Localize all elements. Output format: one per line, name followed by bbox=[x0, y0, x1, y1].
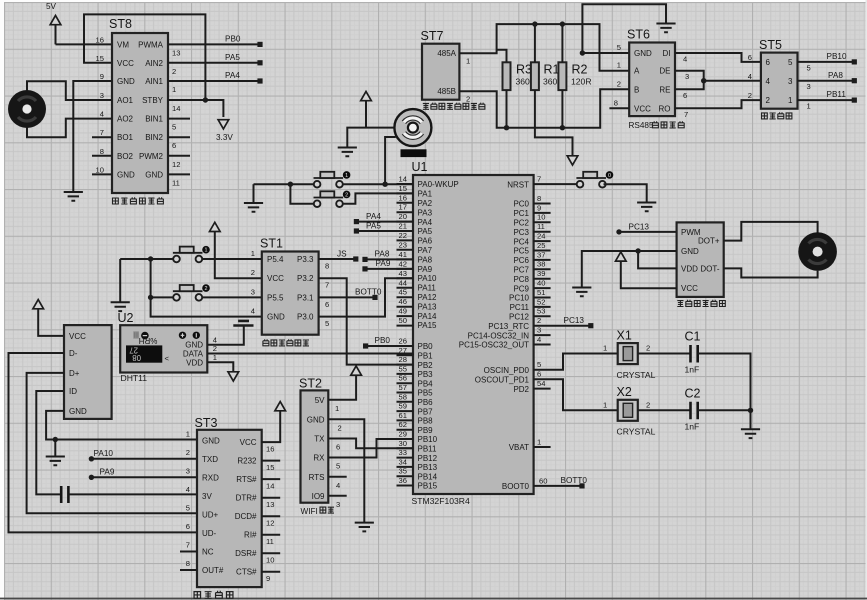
node PA9 bbox=[89, 475, 94, 480]
svg-text:2: 2 bbox=[646, 400, 650, 409]
svg-text:PA8: PA8 bbox=[418, 255, 433, 264]
svg-text:485A: 485A bbox=[437, 49, 456, 58]
svg-text:RTS: RTS bbox=[309, 473, 325, 482]
svg-text:VCC: VCC bbox=[240, 438, 257, 447]
svg-text:5: 5 bbox=[788, 58, 793, 67]
wire ST5 pin1 to PB11 label bbox=[798, 99, 855, 101]
wire VM to 5V bbox=[56, 43, 113, 45]
svg-text:IO9: IO9 bbox=[312, 492, 325, 501]
svg-text:PA5: PA5 bbox=[418, 227, 433, 236]
svg-text:2: 2 bbox=[345, 192, 348, 198]
svg-text:PB11: PB11 bbox=[418, 445, 438, 454]
svg-text:JS: JS bbox=[337, 249, 347, 258]
svg-text:62: 62 bbox=[399, 420, 407, 429]
svg-text:PA1: PA1 bbox=[418, 190, 433, 199]
ST5 left pin numbers bbox=[748, 53, 752, 100]
wire cap to ST3 3V bbox=[68, 493, 197, 495]
svg-text:WIFI: WIFI bbox=[301, 507, 318, 516]
wire pump VCC bbox=[621, 261, 677, 288]
svg-text:9: 9 bbox=[266, 574, 270, 583]
svg-text:U2: U2 bbox=[118, 311, 134, 325]
wire R3 top lead bbox=[497, 50, 507, 63]
svg-text:8: 8 bbox=[537, 194, 541, 203]
svg-text:PA9: PA9 bbox=[418, 265, 433, 274]
svg-text:30: 30 bbox=[399, 439, 407, 448]
svg-text:VCC: VCC bbox=[69, 332, 86, 341]
svg-text:12: 12 bbox=[266, 519, 274, 528]
svg-text:PA14: PA14 bbox=[418, 312, 438, 321]
svg-text:PC7: PC7 bbox=[513, 266, 529, 275]
svg-text:U1: U1 bbox=[412, 160, 428, 174]
svg-text:DHT11: DHT11 bbox=[121, 373, 148, 383]
svg-text:8: 8 bbox=[186, 559, 190, 568]
svg-text:PB13: PB13 bbox=[418, 463, 438, 472]
svg-text:44: 44 bbox=[399, 278, 407, 287]
svg-text:P3.1: P3.1 bbox=[297, 293, 314, 302]
svg-text:3: 3 bbox=[537, 326, 541, 335]
svg-text:DCD#: DCD# bbox=[235, 512, 257, 521]
svg-text:43: 43 bbox=[399, 269, 407, 278]
ground under ST2 bbox=[355, 523, 374, 532]
svg-text:37: 37 bbox=[537, 250, 545, 259]
svg-text:56: 56 bbox=[399, 374, 407, 383]
wire NRST to reset button bbox=[534, 183, 580, 185]
svg-text:7: 7 bbox=[684, 110, 688, 119]
capacitor C2 bbox=[685, 386, 701, 431]
junction GND wire bbox=[580, 50, 585, 55]
svg-text:28: 28 bbox=[399, 355, 407, 364]
U2 pin numbers bbox=[213, 335, 217, 362]
svg-text:PB11: PB11 bbox=[827, 90, 847, 99]
svg-text:3: 3 bbox=[807, 82, 811, 91]
dht display bbox=[126, 345, 162, 362]
svg-text:PC12: PC12 bbox=[509, 313, 530, 322]
svg-text:1: 1 bbox=[617, 61, 621, 70]
wire PB0 label to U1 bbox=[366, 345, 413, 347]
svg-text:4: 4 bbox=[100, 110, 104, 119]
svg-text:6: 6 bbox=[683, 91, 687, 100]
svg-text:49: 49 bbox=[399, 307, 407, 316]
svg-text:1: 1 bbox=[251, 249, 255, 258]
ST3 NC OUT# stubs bbox=[180, 552, 197, 571]
wire ST5 pin5 to PB10 label bbox=[798, 61, 855, 63]
svg-text:PC2: PC2 bbox=[513, 219, 529, 228]
svg-text:PC8: PC8 bbox=[513, 275, 529, 284]
dht knob icon bbox=[141, 332, 149, 340]
svg-text:5: 5 bbox=[807, 63, 811, 72]
svg-text:PWM: PWM bbox=[681, 228, 701, 237]
svg-text:PA9: PA9 bbox=[376, 259, 391, 268]
wire PA8 label to U1 bbox=[365, 258, 413, 260]
ST3 right stubs bbox=[262, 461, 281, 572]
svg-text:RTS#: RTS# bbox=[236, 475, 257, 484]
crystal X2 bbox=[617, 385, 656, 437]
wire USB ID to cap to ST3 3V bbox=[36, 391, 64, 494]
svg-text:6: 6 bbox=[537, 370, 541, 379]
U1 left pin names PB bbox=[418, 342, 438, 491]
ST8 stub wires pins BIN1 BIN2 PWM2 GND11 bbox=[168, 119, 190, 175]
svg-text:VCC: VCC bbox=[634, 104, 651, 113]
svg-text:PC10: PC10 bbox=[509, 294, 530, 303]
junction button B left bbox=[148, 295, 153, 300]
label 水泵驱动模块 bbox=[677, 300, 725, 307]
svg-text:6: 6 bbox=[766, 58, 771, 67]
wire R2 top lead bbox=[561, 24, 563, 62]
svg-text:4: 4 bbox=[537, 335, 541, 344]
ground right of reset button bbox=[637, 203, 656, 212]
svg-text:PB10: PB10 bbox=[418, 435, 438, 444]
svg-text:2: 2 bbox=[766, 96, 771, 105]
svg-text:40: 40 bbox=[537, 279, 545, 288]
page white margins bbox=[0, 0, 4, 600]
svg-text:15: 15 bbox=[399, 184, 407, 193]
wire reset button to ground bbox=[604, 184, 647, 202]
wire ST6 GND to top ground bbox=[582, 4, 666, 53]
svg-text:P3.0: P3.0 bbox=[297, 313, 314, 322]
wire P3.3 to JS label bbox=[319, 258, 356, 260]
ST8 left pin numbers bbox=[96, 35, 104, 174]
svg-text:PB1: PB1 bbox=[418, 352, 434, 361]
svg-text:2: 2 bbox=[646, 344, 650, 353]
svg-text:11: 11 bbox=[266, 537, 274, 546]
power arrow on pump VCC bbox=[616, 252, 627, 261]
svg-text:C1: C1 bbox=[685, 330, 701, 344]
svg-text:PC14-OSC32_IN: PC14-OSC32_IN bbox=[468, 331, 530, 340]
node BOTT0 bbox=[372, 295, 377, 300]
svg-text:14: 14 bbox=[172, 104, 180, 113]
svg-text:R1: R1 bbox=[544, 63, 560, 77]
svg-text:1: 1 bbox=[807, 102, 811, 111]
svg-text:BIN1: BIN1 bbox=[145, 115, 163, 124]
svg-text:DI: DI bbox=[663, 49, 671, 58]
svg-text:9: 9 bbox=[100, 72, 104, 81]
svg-text:52: 52 bbox=[537, 297, 545, 306]
svg-text:11: 11 bbox=[172, 178, 180, 187]
svg-text:9: 9 bbox=[537, 203, 541, 212]
svg-text:BO2: BO2 bbox=[117, 152, 134, 161]
svg-text:5V: 5V bbox=[46, 2, 57, 11]
svg-text:GND: GND bbox=[69, 407, 87, 416]
svg-text:PB0: PB0 bbox=[375, 336, 391, 345]
wire pump GND to ground bbox=[582, 251, 677, 288]
svg-text:4: 4 bbox=[213, 335, 217, 344]
power 3.3V arrow bbox=[216, 120, 233, 142]
svg-text:D+: D+ bbox=[69, 369, 80, 378]
svg-text:R232: R232 bbox=[237, 457, 257, 466]
svg-text:ST3: ST3 bbox=[195, 416, 218, 430]
svg-text:P5.5: P5.5 bbox=[267, 293, 284, 302]
svg-text:TX: TX bbox=[314, 435, 325, 444]
svg-text:3: 3 bbox=[788, 77, 793, 86]
svg-text:PC13_RTC: PC13_RTC bbox=[488, 322, 529, 331]
svg-text:5: 5 bbox=[537, 360, 541, 369]
svg-text:PA2: PA2 bbox=[418, 199, 433, 208]
U1 left pin names PA bbox=[418, 180, 459, 330]
svg-text:PA3: PA3 bbox=[418, 208, 433, 217]
svg-text:08: 08 bbox=[132, 353, 141, 362]
svg-text:P3.3: P3.3 bbox=[297, 255, 314, 264]
svg-text:GND: GND bbox=[145, 170, 163, 179]
svg-text:AIN2: AIN2 bbox=[145, 59, 163, 68]
dht pin names bbox=[183, 341, 204, 368]
svg-text:45: 45 bbox=[399, 288, 407, 297]
power arrow above sensor wire bbox=[361, 92, 372, 128]
svg-text:29: 29 bbox=[399, 430, 407, 439]
svg-text:51: 51 bbox=[537, 288, 545, 297]
svg-text:PWM2: PWM2 bbox=[139, 152, 164, 161]
svg-text:58: 58 bbox=[399, 392, 407, 401]
wire DOT+ to motor bbox=[724, 222, 818, 241]
wire ST5 pin3 to PA8 label bbox=[798, 80, 855, 82]
svg-text:5: 5 bbox=[172, 123, 176, 132]
wire DOT- to motor bbox=[724, 268, 818, 277]
svg-text:7: 7 bbox=[537, 175, 541, 184]
wire ST1 GND rail bbox=[120, 259, 262, 317]
svg-text:STM32F103R4: STM32F103R4 bbox=[412, 496, 470, 506]
node PA4 bbox=[354, 219, 359, 224]
junction button A left bbox=[148, 256, 153, 261]
U1 right pin names bbox=[459, 180, 530, 491]
ground under pump GND bbox=[572, 288, 591, 297]
svg-text:ST5: ST5 bbox=[759, 38, 782, 52]
svg-text:ID: ID bbox=[69, 387, 77, 396]
connector ST5 bbox=[759, 38, 798, 109]
svg-text:GND: GND bbox=[681, 247, 699, 256]
svg-text:61: 61 bbox=[399, 411, 407, 420]
wire ST2 RX to PB10 bbox=[328, 439, 413, 458]
svg-text:11: 11 bbox=[537, 222, 545, 231]
wire pump VDD bbox=[638, 251, 677, 268]
power arrow above ST2 5V bbox=[351, 366, 362, 375]
wire sensor left lead to ground bbox=[347, 128, 394, 148]
wire P3.1 to BOTT0 label bbox=[319, 296, 375, 298]
svg-text:3: 3 bbox=[685, 72, 689, 81]
svg-text:39: 39 bbox=[537, 269, 545, 278]
junction R2/A-net bbox=[560, 21, 565, 26]
svg-text:R3: R3 bbox=[516, 63, 532, 77]
svg-text:22: 22 bbox=[399, 231, 407, 240]
svg-text:1: 1 bbox=[345, 173, 348, 179]
ST8 stub wires BO1 BO2 GND10 bbox=[92, 137, 112, 174]
push button ST1-A bbox=[173, 246, 210, 262]
junction R3/bottom rail bbox=[504, 125, 509, 130]
svg-text:STBY: STBY bbox=[142, 96, 164, 105]
svg-text:PB15: PB15 bbox=[418, 482, 438, 491]
ground left of PA0 button bbox=[253, 184, 255, 203]
svg-text:PWMA: PWMA bbox=[138, 40, 164, 49]
svg-text:PC4: PC4 bbox=[513, 237, 529, 246]
svg-text:BOOT0: BOOT0 bbox=[502, 482, 530, 491]
power arrow above ST3 VCC bbox=[275, 402, 286, 411]
svg-text:B: B bbox=[634, 85, 639, 94]
svg-text:5: 5 bbox=[186, 503, 190, 512]
wire BOOT0 to BOTT0 label bbox=[534, 485, 582, 487]
svg-text:8: 8 bbox=[325, 262, 329, 271]
wire PA10 to ST3 TXD bbox=[91, 458, 197, 460]
junction rail/C2 bbox=[748, 408, 753, 413]
svg-text:41: 41 bbox=[399, 250, 407, 259]
svg-text:GND: GND bbox=[634, 49, 652, 58]
ST8 right pin numbers bbox=[172, 48, 180, 187]
svg-text:C2: C2 bbox=[685, 386, 701, 400]
junction DE/RE bbox=[701, 78, 706, 83]
svg-text:PC15-OSC32_OUT: PC15-OSC32_OUT bbox=[459, 341, 529, 350]
svg-text:GND: GND bbox=[117, 170, 135, 179]
svg-text:RX: RX bbox=[313, 454, 325, 463]
wire U2 GND to vbar bbox=[207, 326, 244, 345]
svg-text:7: 7 bbox=[186, 540, 190, 549]
svg-text:PB8: PB8 bbox=[418, 417, 434, 426]
wire motor bottom to AO2 bbox=[27, 119, 112, 138]
svg-text:4: 4 bbox=[748, 72, 752, 81]
svg-text:GND: GND bbox=[267, 313, 285, 322]
svg-text:PA10: PA10 bbox=[418, 274, 438, 283]
svg-text:RO: RO bbox=[659, 104, 671, 113]
sensor U2 bbox=[118, 311, 208, 373]
svg-text:GND: GND bbox=[202, 436, 220, 445]
soil sensor icon bbox=[394, 109, 431, 146]
svg-text:PB9: PB9 bbox=[418, 426, 434, 435]
svg-text:NC: NC bbox=[202, 547, 214, 556]
svg-text:16: 16 bbox=[96, 35, 104, 44]
wire ST3 VCC to power arrow bbox=[262, 411, 281, 442]
svg-text:PA12: PA12 bbox=[418, 293, 438, 302]
svg-text:R2: R2 bbox=[572, 63, 588, 77]
svg-text:AO2: AO2 bbox=[117, 115, 134, 124]
svg-text:4: 4 bbox=[766, 77, 771, 86]
svg-text:VM: VM bbox=[117, 40, 129, 49]
svg-text:PC6: PC6 bbox=[513, 256, 529, 265]
svg-text:1: 1 bbox=[537, 437, 541, 446]
wire ST2 GND to ground bbox=[328, 419, 364, 522]
svg-text:VDD: VDD bbox=[186, 359, 203, 368]
wire PC13_RTC to PC13 label bbox=[534, 325, 591, 327]
motor M1 bbox=[8, 90, 46, 128]
svg-text:7: 7 bbox=[100, 128, 104, 137]
wire P3.0 to PA10 bbox=[319, 278, 413, 316]
ground under C2 bbox=[741, 429, 760, 438]
svg-text:16: 16 bbox=[399, 193, 407, 202]
svg-text:35: 35 bbox=[399, 467, 407, 476]
push button PA1 bbox=[314, 191, 351, 207]
resistor R2 bbox=[558, 62, 591, 90]
ST3 right pin numbers bbox=[266, 445, 274, 584]
ST1 right pin numbers bbox=[325, 262, 329, 329]
label WIFI模块 bbox=[301, 507, 335, 516]
wire R2 bottom lead bbox=[561, 90, 563, 128]
bottom border line bbox=[0, 598, 867, 600]
node PA8 bbox=[852, 78, 857, 83]
svg-text:10: 10 bbox=[96, 165, 104, 174]
power arrow above USB VCC bbox=[33, 300, 64, 336]
capacitor series in 3V line bbox=[61, 486, 68, 503]
push button reset bbox=[576, 171, 613, 187]
wire rail to ground bbox=[750, 410, 752, 429]
pump module box bbox=[677, 222, 724, 297]
svg-text:BIN2: BIN2 bbox=[145, 133, 163, 142]
svg-text:PA5: PA5 bbox=[366, 222, 381, 231]
ST8 pin names left bbox=[117, 40, 135, 179]
svg-text:UD+: UD+ bbox=[202, 510, 219, 519]
svg-text:21: 21 bbox=[399, 222, 407, 231]
svg-text:PB3: PB3 bbox=[418, 370, 434, 379]
motor M2 bbox=[798, 232, 837, 271]
svg-text:VCC: VCC bbox=[117, 59, 134, 68]
svg-text:42: 42 bbox=[399, 259, 407, 268]
junction pump VDD bbox=[635, 248, 640, 253]
ST1 left pin numbers bbox=[251, 249, 255, 316]
chip ST6 bbox=[627, 28, 675, 117]
wire P3.2 to PB2 bbox=[319, 278, 413, 364]
svg-text:6: 6 bbox=[186, 522, 190, 531]
svg-text:VDD: VDD bbox=[681, 264, 698, 273]
svg-text:OSCOUT_PD1: OSCOUT_PD1 bbox=[475, 375, 530, 384]
junction PA0/sensor bbox=[382, 182, 387, 187]
wire USB D- to ST3 UD- bbox=[9, 353, 198, 532]
ground above ST6 bbox=[656, 24, 675, 33]
wire 485A to A-net bbox=[459, 24, 629, 71]
svg-text:DE: DE bbox=[659, 67, 670, 76]
svg-text:1nF: 1nF bbox=[685, 421, 700, 431]
svg-text:54: 54 bbox=[537, 379, 545, 388]
wire motor top to AO1 bbox=[27, 81, 112, 100]
svg-text:3: 3 bbox=[100, 91, 104, 100]
svg-text:PC9: PC9 bbox=[513, 284, 529, 293]
wire RO to ST5 pin2 bbox=[675, 100, 761, 108]
svg-text:2: 2 bbox=[537, 316, 541, 325]
U1 right pin numbers bbox=[537, 175, 547, 486]
wire R1 top lead bbox=[534, 24, 536, 62]
svg-text:A: A bbox=[634, 67, 640, 76]
svg-text:DOT-: DOT- bbox=[700, 264, 719, 273]
svg-text:BO1: BO1 bbox=[117, 133, 134, 142]
node PB0 bbox=[257, 42, 262, 47]
svg-text:1: 1 bbox=[603, 400, 607, 409]
svg-text:25: 25 bbox=[537, 241, 545, 250]
wire C1 to right rail bbox=[698, 354, 751, 411]
node PA9 bbox=[362, 266, 367, 271]
chip ST1 bbox=[260, 237, 319, 335]
ST6 left pin numbers bbox=[614, 43, 621, 107]
power down arrow under R1 bbox=[567, 156, 578, 165]
svg-text:VBAT: VBAT bbox=[509, 443, 529, 452]
svg-text:PC1: PC1 bbox=[513, 209, 529, 218]
svg-text:PA4: PA4 bbox=[418, 218, 433, 227]
svg-text:ST1: ST1 bbox=[260, 237, 283, 251]
power bar above U2 bbox=[233, 321, 253, 326]
wire DE RE tied to ST5 pin4 bbox=[675, 71, 761, 90]
svg-text:1nF: 1nF bbox=[685, 365, 700, 375]
svg-text:GND: GND bbox=[307, 415, 325, 424]
label 土壤多要素传感器 bbox=[423, 103, 485, 110]
label RS485驱动模块 bbox=[629, 121, 685, 130]
svg-text:GND: GND bbox=[185, 341, 203, 350]
svg-text:PB7: PB7 bbox=[418, 407, 434, 416]
svg-text:2: 2 bbox=[617, 79, 621, 88]
svg-text:6: 6 bbox=[325, 300, 329, 309]
wire VCC loop to top bbox=[84, 14, 205, 100]
svg-text:ST2: ST2 bbox=[299, 377, 322, 391]
svg-text:120R: 120R bbox=[571, 77, 592, 87]
svg-text:PB5: PB5 bbox=[418, 389, 434, 398]
svg-text:23: 23 bbox=[399, 240, 407, 249]
wire X1 to C1 bbox=[638, 353, 691, 355]
svg-text:12: 12 bbox=[172, 160, 180, 169]
wire X2 to C2 bbox=[638, 409, 691, 411]
ground under USB bbox=[46, 457, 65, 466]
svg-text:X1: X1 bbox=[617, 329, 632, 343]
wire U2 VDD to arrow bbox=[207, 362, 233, 372]
